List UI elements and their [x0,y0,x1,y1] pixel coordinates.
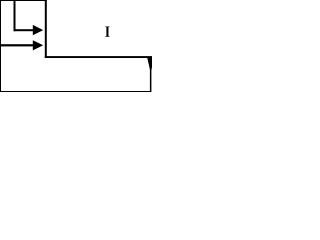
wire: mid horizontal [45,56,152,58]
arrow A1 shaft [14,29,34,31]
wire: inner vertical from top [14,0,16,31]
wire: left border [0,0,1,92]
arrow A1 head [33,25,43,35]
wire: top border [0,0,47,1]
wire: bottom border [0,91,151,92]
arrowhead down on right border [147,58,154,73]
wire: mid vertical [45,0,47,58]
label I (serif capital I glyph outline) [105,27,109,37]
wire: right border [150,57,152,92]
arrow A2 head [33,40,43,50]
arrow A2 shaft [0,44,33,46]
